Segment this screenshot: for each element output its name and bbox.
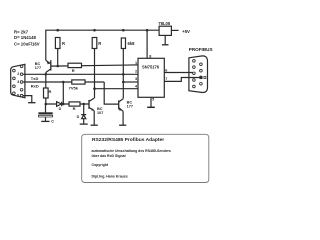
- svg-text:R: R: [73, 106, 76, 111]
- node RxD branch joins: [62, 103, 65, 106]
- svg-text:1: 1: [135, 61, 137, 65]
- svg-text:TxD: TxD: [31, 76, 39, 81]
- svg-text:R: R: [62, 41, 65, 46]
- svg-text:177: 177: [127, 104, 133, 108]
- svg-text:C: C: [51, 120, 54, 124]
- wire DB9 pin5 to ground: [23, 96, 32, 103]
- wire IC pin4: [95, 88, 139, 90]
- wire RxD branch vertical: [62, 82, 64, 104]
- diode D1: [57, 102, 62, 112]
- wire IC pin3: [123, 81, 138, 83]
- svg-text:automatische Umschaltung des R: automatische Umschaltung des RS485-Sende…: [92, 149, 171, 153]
- node pin4-R2 column: [93, 87, 96, 90]
- node R1-base: [56, 65, 59, 68]
- node pin3-R3 column: [122, 81, 125, 84]
- wire RxD corner down to Q3 base: [104, 82, 118, 104]
- svg-text:2: 2: [135, 69, 137, 73]
- svg-text:R: R: [98, 41, 101, 46]
- svg-text:Dipl.Ing. Hans Krauss: Dipl.Ing. Hans Krauss: [92, 174, 128, 178]
- svg-text:2: 2: [17, 72, 19, 76]
- svg-text:7: 7: [165, 77, 167, 81]
- wire TxD (DB9 pin2 to IC pin2): [23, 73, 138, 75]
- svg-text:R: R: [49, 89, 52, 94]
- svg-text:R= 2k7: R= 2k7: [14, 30, 29, 35]
- svg-text:D: D: [77, 115, 80, 119]
- resistor R4 (below TxD): [44, 74, 52, 104]
- svg-text:3: 3: [135, 77, 137, 81]
- node rail-R1: [56, 29, 59, 32]
- diode D2 (vertical, to ground): [77, 104, 87, 124]
- svg-text:107: 107: [97, 111, 103, 115]
- ground under DB9 left: [28, 102, 35, 104]
- svg-text:RS232/RS485 Profibus Adapter: RS232/RS485 Profibus Adapter: [92, 137, 164, 143]
- svg-text:5: 5: [17, 93, 19, 97]
- resistor R5 (in pin1 wire): [68, 63, 82, 73]
- wire RxD (DB9 pin3 through R6): [23, 81, 104, 83]
- svg-text:+5V: +5V: [182, 29, 190, 34]
- svg-text:Copyright: Copyright: [92, 163, 109, 167]
- resistor R6 7V5k: [69, 80, 85, 91]
- wire base chain y=104: [46, 103, 89, 105]
- svg-text:D: D: [59, 107, 62, 111]
- svg-text:177: 177: [35, 66, 41, 70]
- transistor Q3 BC177 (PNP): [119, 99, 133, 125]
- svg-text:RxD: RxD: [31, 84, 39, 89]
- node rail-pin8: [146, 29, 149, 32]
- ground under IC: [147, 106, 155, 108]
- svg-text:78L05: 78L05: [158, 21, 171, 26]
- wire 78L05 output: [171, 29, 178, 31]
- ground under Q2: [91, 124, 98, 126]
- resistor R1: [55, 38, 65, 67]
- node RxD-D1 branch: [62, 81, 65, 84]
- wire +V rail: [46, 30, 159, 60]
- title text: [92, 137, 171, 178]
- transistor Q2 BC107 (NPN): [89, 98, 103, 125]
- ground under Q3: [119, 124, 126, 126]
- ground under D2: [80, 123, 88, 125]
- svg-text:6: 6: [165, 68, 167, 72]
- svg-text:3: 3: [17, 80, 19, 84]
- connector X2 DB9 right: [189, 56, 208, 93]
- svg-text:5: 5: [152, 98, 154, 102]
- svg-text:D= 1N4148: D= 1N4148: [14, 35, 36, 40]
- transistor Q1 BC177 (top left, PNP): [35, 60, 51, 74]
- capacitor C1: [38, 104, 54, 124]
- node rail-R2: [93, 29, 96, 32]
- wire IC pin7 to X2: [164, 78, 200, 82]
- svg-text:C= 10uF/16V: C= 10uF/16V: [14, 41, 40, 46]
- node D1 wire left: [45, 103, 48, 106]
- node TxD-Q1 collector: [45, 73, 48, 76]
- wire IC pin5 to ground: [150, 97, 152, 107]
- svg-text:PROFIBUS: PROFIBUS: [189, 47, 213, 52]
- title box: [82, 134, 209, 182]
- node rail-R3: [122, 29, 125, 32]
- svg-text:über das RxD Signal: über das RxD Signal: [92, 154, 126, 158]
- resistor R2: [92, 38, 101, 99]
- ground under C1: [41, 120, 49, 122]
- ground under 78L05: [162, 35, 169, 44]
- wire IC pin1 / Q1 base: [51, 65, 138, 66]
- resistor R7: [69, 102, 80, 111]
- svg-text:R: R: [72, 68, 75, 73]
- svg-text:7V5k: 7V5k: [69, 85, 79, 90]
- wire IC pin6 to X2: [164, 72, 192, 74]
- note text R= 2k7 / D= 1N4148 / C= 10uF/16V: [14, 30, 40, 47]
- regulator U2 78L05: [158, 21, 171, 35]
- pin blob at wire7 end: [200, 76, 203, 79]
- svg-text:6k8: 6k8: [128, 41, 136, 46]
- node D2 branch: [82, 103, 85, 106]
- IC U1 SN75176: [138, 58, 164, 97]
- resistor R3 6k8: [121, 38, 135, 98]
- node TxD-R3 column: [122, 73, 125, 76]
- svg-text:SN75176: SN75176: [142, 64, 160, 69]
- connector X1 DB9 left: [11, 64, 25, 97]
- wire Vcc to IC pin 8: [146, 30, 148, 58]
